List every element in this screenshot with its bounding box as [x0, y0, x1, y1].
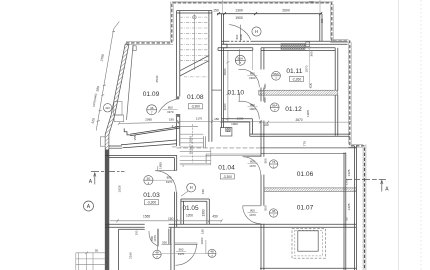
exterior stairs bottom-left [76, 252, 105, 270]
svg-text:1855: 1855 [158, 162, 162, 169]
slanted dimension line left [96, 22, 119, 131]
svg-text:180: 180 [214, 117, 219, 121]
svg-text:1170: 1170 [196, 117, 203, 121]
svg-text:1570: 1570 [305, 65, 309, 72]
01.12 south wall [250, 134, 350, 136]
door D5 corridor to 01.06 [243, 157, 261, 175]
level boxes [145, 76, 304, 205]
svg-text:1905: 1905 [306, 110, 310, 117]
svg-text:01.10: 01.10 [228, 90, 245, 97]
shaft dashed square [292, 229, 326, 259]
01.03/01.05 south wall [105, 224, 356, 227]
stair center line [193, 14, 195, 70]
rotated small dims [118, 33, 352, 258]
svg-text:7: 7 [275, 77, 277, 81]
svg-text:50: 50 [147, 176, 151, 180]
svg-text:500: 500 [263, 158, 267, 163]
left exterior wall hatched [105, 44, 129, 270]
pilaster block at top-left corner [133, 46, 136, 51]
inner finish line along slanted wall [127, 45, 134, 120]
svg-text:1565: 1565 [143, 215, 150, 219]
01.06/01.07 east wall [344, 153, 346, 270]
svg-text:150: 150 [201, 189, 205, 194]
01.10 south wall [222, 119, 253, 136]
svg-text:10.5x17.1/28.6: 10.5x17.1/28.6 [189, 135, 193, 154]
svg-text:7: 7 [151, 111, 153, 115]
svg-text:360: 360 [309, 51, 313, 56]
stair break diagonals [180, 56, 209, 71]
dim texts top [213, 9, 290, 20]
vertical dim line inside 01.10 [226, 51, 229, 123]
svg-text:1325: 1325 [347, 203, 351, 210]
svg-text:1900: 1900 [235, 16, 243, 20]
door D4 01.10 to 01.12 [239, 101, 260, 119]
dim row under 01.10 [175, 51, 262, 127]
east exterior wall strip [355, 146, 357, 270]
01.05 walls [181, 199, 209, 224]
svg-text:1200: 1200 [186, 213, 193, 217]
svg-text:170: 170 [345, 180, 349, 185]
door D6 corridor to 01.07 [243, 206, 261, 224]
svg-text:01.04: 01.04 [218, 164, 235, 171]
bottom rooms walls [119, 227, 264, 270]
svg-text:-3,300: -3,300 [191, 105, 201, 109]
door D8 01.09 to stair [159, 99, 177, 112]
svg-text:150: 150 [168, 217, 174, 221]
svg-text:01.03: 01.03 [143, 192, 160, 199]
svg-text:-2,260: -2,260 [292, 77, 302, 81]
svg-text:1900: 1900 [249, 107, 256, 111]
svg-text:1925: 1925 [118, 185, 122, 192]
top wall of 01.10/01.11 y47.8-50.4 [218, 48, 335, 51]
door D9 bottom left room [149, 229, 172, 251]
small downstair flight in corridor [180, 134, 211, 165]
room labels [143, 68, 314, 212]
outer notch on left wall [100, 137, 105, 146]
corner block left of vestibule bottom [222, 44, 228, 48]
svg-text:46: 46 [150, 106, 154, 110]
svg-text:2085: 2085 [145, 117, 152, 121]
grid bubble A [84, 201, 94, 211]
door D3 01.10 to 01.11 [239, 69, 260, 87]
north wall of main block y41-44 [222, 41, 348, 44]
svg-text:H: H [190, 185, 193, 190]
hatch band between 01.06 and 01.07 [264, 188, 357, 192]
room 01.09 inner slanted bottom wall [121, 127, 180, 148]
shaft strip divider line [212, 89, 222, 91]
dim 2670 row [259, 121, 351, 124]
svg-text:01.05: 01.05 [183, 205, 199, 212]
svg-text:1000: 1000 [223, 103, 227, 110]
svg-text:01.07: 01.07 [297, 205, 314, 212]
svg-text:50A: 50A [238, 57, 244, 61]
pier block at corridor NW [221, 128, 232, 137]
svg-text:1970: 1970 [167, 110, 174, 114]
svg-text:7: 7 [211, 254, 213, 258]
01.03 walls [105, 155, 356, 227]
svg-text:1970: 1970 [249, 164, 256, 168]
svg-text:50: 50 [95, 249, 99, 253]
svg-text:1970: 1970 [178, 252, 185, 256]
01.10 west wall (below vestibule) [222, 48, 350, 227]
door D10 bottom room [175, 240, 206, 265]
divider 01.10 | 01.11/01.12 with door openings [261, 48, 264, 227]
svg-text:1325: 1325 [347, 169, 351, 176]
section marker right [346, 179, 386, 191]
dim row under 01.03 / 01.05 [110, 219, 223, 222]
svg-text:56A: 56A [273, 72, 279, 76]
svg-text:01.09: 01.09 [143, 91, 160, 98]
svg-text:1: 1 [148, 181, 150, 185]
short wall stub right of left wall at corridor line [109, 146, 122, 148]
svg-text:01.06: 01.06 [297, 171, 314, 178]
svg-text:1970: 1970 [153, 235, 157, 242]
01.11 east wall [335, 48, 338, 136]
svg-text:01.12: 01.12 [285, 106, 302, 113]
svg-text:1200: 1200 [237, 117, 244, 121]
svg-text:48: 48 [210, 250, 214, 254]
door labels 800/1970 pairs [144, 72, 258, 256]
svg-text:155: 155 [133, 135, 137, 140]
bottom line y268 [260, 267, 356, 269]
stair treads [180, 17, 209, 77]
svg-text:775: 775 [303, 141, 307, 146]
svg-text:410: 410 [105, 106, 110, 110]
hatch band between 01.11 and 01.12 [259, 90, 338, 95]
svg-text:150: 150 [134, 230, 138, 235]
svg-text:01.08: 01.08 [187, 94, 204, 101]
svg-text:1970: 1970 [166, 180, 173, 184]
svg-text:1900: 1900 [249, 76, 256, 80]
stair east wall [209, 11, 212, 142]
svg-text:48: 48 [155, 251, 159, 255]
cross hatch infill top wall [281, 44, 305, 50]
stair west wall [176, 11, 222, 146]
stair north wall [177, 11, 212, 13]
svg-text:56A: 56A [272, 104, 278, 108]
door D2 leaf 01.10 [239, 49, 241, 64]
svg-text:H: H [255, 29, 258, 34]
door D7 01.03 [155, 166, 176, 192]
svg-text:550: 550 [263, 97, 267, 102]
vestibule top dimension wall [217, 13, 322, 15]
svg-text:1300: 1300 [235, 9, 243, 13]
svg-text:01.11: 01.11 [286, 68, 302, 75]
svg-text:800: 800 [168, 106, 173, 110]
svg-text:450: 450 [212, 214, 218, 218]
svg-text:50: 50 [345, 217, 349, 221]
section marker left [91, 171, 125, 184]
svg-text:150: 150 [263, 123, 269, 127]
svg-text:48: 48 [272, 209, 276, 213]
door vestibule D1 [229, 25, 251, 42]
svg-text:550: 550 [162, 241, 167, 245]
01.06 north wall [260, 146, 356, 270]
svg-text:800: 800 [167, 176, 172, 180]
niche rects on slanted wall [114, 102, 124, 122]
svg-text:-3,300: -3,300 [223, 175, 233, 179]
svg-text:2670: 2670 [295, 118, 302, 122]
svg-text:7: 7 [274, 108, 276, 112]
small duct at 01.11 top right [306, 42, 310, 47]
svg-text:715: 715 [309, 83, 313, 88]
svg-text:1: 1 [273, 165, 275, 169]
fold mark faint line [398, 0, 400, 270]
outer boundary dashed band [126, 2, 366, 270]
svg-text:2160: 2160 [129, 252, 133, 259]
svg-text:150: 150 [200, 229, 204, 234]
svg-text:1900: 1900 [239, 33, 243, 40]
svg-text:76: 76 [272, 160, 276, 164]
vestibule right wall [320, 14, 322, 41]
svg-text:1520: 1520 [223, 68, 227, 75]
corridor north dashed line [177, 147, 261, 149]
stair walk dashed line lower [192, 124, 194, 163]
svg-text:1600: 1600 [200, 237, 204, 244]
svg-text:-3,300: -3,300 [147, 201, 157, 205]
svg-text:1970: 1970 [249, 213, 256, 217]
svg-text:190: 190 [169, 118, 174, 122]
svg-text:1900: 1900 [231, 122, 238, 126]
door tag circles [103, 27, 280, 259]
svg-text:7: 7 [273, 214, 275, 218]
svg-text:7: 7 [239, 61, 241, 65]
vestibule left wall [218, 14, 348, 50]
svg-text:150: 150 [213, 9, 219, 13]
svg-text:1300: 1300 [202, 209, 206, 216]
svg-text:2540: 2540 [155, 75, 159, 82]
svg-text:7: 7 [156, 255, 158, 259]
svg-text:150: 150 [309, 0, 314, 4]
leader line door tags bottom [162, 253, 208, 255]
svg-text:2600: 2600 [282, 9, 290, 13]
svg-text:550: 550 [263, 83, 267, 88]
svg-text:500: 500 [263, 205, 267, 210]
